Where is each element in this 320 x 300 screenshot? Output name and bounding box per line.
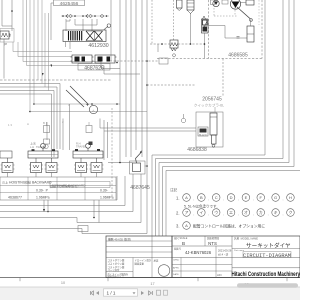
svg-text:HOISTING: HOISTING bbox=[9, 180, 26, 184]
svg-text:3.: 3. bbox=[176, 224, 180, 229]
svg-text:サーキットダイヤ: サーキットダイヤ bbox=[246, 241, 291, 249]
svg-text:エ: エ bbox=[229, 210, 233, 215]
svg-text:BLACK: BLACK bbox=[199, 134, 207, 137]
svg-text:±0.4・済: ±0.4・済 bbox=[218, 252, 229, 256]
svg-text:コストダウン図: コストダウン図 bbox=[108, 262, 125, 266]
svg-text:4J-KBN76026: 4J-KBN76026 bbox=[185, 250, 212, 255]
svg-text:Hitachi Construction Machinery: Hitachi Construction Machinery bbox=[232, 271, 301, 278]
svg-text:1 / 1: 1 / 1 bbox=[107, 291, 116, 296]
svg-text:B: B bbox=[43, 121, 45, 125]
svg-text:G: G bbox=[274, 195, 277, 200]
svg-text:ドローイン設計: ドローイン設計 bbox=[135, 258, 152, 262]
svg-text:注記: 注記 bbox=[170, 187, 178, 192]
svg-text:縮尺 SCALE: 縮尺 SCALE bbox=[174, 236, 188, 240]
svg-text:H: H bbox=[289, 195, 292, 200]
svg-text:コストダウン図: コストダウン図 bbox=[108, 258, 125, 262]
svg-text:0.39-: 0.39- bbox=[100, 189, 108, 193]
svg-text:4612930: 4612930 bbox=[88, 43, 108, 49]
svg-text:,: , bbox=[253, 212, 254, 216]
svg-text:2056745: 2056745 bbox=[202, 97, 222, 103]
svg-text:,: , bbox=[238, 197, 239, 201]
svg-text:微動: 微動 bbox=[25, 179, 31, 184]
svg-text:B: B bbox=[200, 195, 203, 200]
svg-text:,: , bbox=[238, 212, 239, 216]
svg-text:4686838: 4686838 bbox=[187, 147, 207, 153]
svg-text:,: , bbox=[208, 197, 209, 201]
svg-text:ウ: ウ bbox=[214, 209, 218, 215]
svg-text:HIN: HIN bbox=[217, 273, 222, 277]
svg-text:承認: 承認 bbox=[154, 259, 159, 263]
svg-text:キ: キ bbox=[274, 210, 278, 215]
svg-text:APPD: APPD bbox=[173, 266, 179, 269]
svg-text:名称 MODEL NAME: 名称 MODEL NAME bbox=[234, 236, 258, 240]
svg-text:D: D bbox=[230, 195, 233, 200]
svg-text:図面号: 図面号 bbox=[174, 247, 182, 251]
svg-text:図面変更: 図面変更 bbox=[135, 262, 145, 266]
svg-text:カ: カ bbox=[259, 210, 263, 215]
svg-text:,: , bbox=[283, 197, 284, 201]
svg-text:4638677: 4638677 bbox=[8, 195, 22, 199]
svg-text:A: A bbox=[27, 122, 29, 126]
svg-text:1.96MPa: 1.96MPa bbox=[100, 195, 114, 199]
svg-text:4625456: 4625456 bbox=[60, 1, 79, 7]
svg-text:0.39- P: 0.39- P bbox=[36, 189, 49, 193]
svg-text:爪上: 爪上 bbox=[2, 179, 8, 184]
svg-text:2021-05-26: 2021-05-26 bbox=[218, 249, 232, 253]
svg-text:クイックカプラ-6L: クイックカプラ-6L bbox=[194, 102, 224, 107]
svg-text:DATE: DATE bbox=[173, 273, 179, 276]
svg-text:図面相関図: 図面相関図 bbox=[207, 236, 220, 240]
svg-text:ア: ア bbox=[185, 210, 189, 215]
svg-text:CHKD: CHKD bbox=[173, 259, 180, 261]
svg-text:,: , bbox=[268, 197, 269, 201]
svg-text:1 3: 1 3 bbox=[8, 123, 12, 127]
svg-text:10: 10 bbox=[61, 281, 65, 285]
svg-text:B: B bbox=[182, 241, 185, 246]
svg-text:配管コントロール回路は、オプション用に: 配管コントロール回路は、オプション用に bbox=[193, 224, 265, 229]
svg-text:A: A bbox=[185, 223, 188, 228]
svg-text:パーツ添付: パーツ添付 bbox=[108, 268, 121, 272]
svg-text:,: , bbox=[283, 212, 284, 216]
svg-text:A: A bbox=[185, 195, 188, 200]
svg-text:オ: オ bbox=[244, 210, 248, 215]
svg-text:FORWARD BACKWARD: FORWARD BACKWARD bbox=[52, 183, 86, 187]
svg-text:C: C bbox=[215, 195, 218, 200]
svg-text:上水: 上水 bbox=[30, 141, 36, 146]
svg-text:,: , bbox=[268, 212, 269, 216]
svg-text:5. 5L-Nは色塗りです.: 5. 5L-Nは色塗りです. bbox=[184, 203, 217, 208]
svg-text:1.96MPa: 1.96MPa bbox=[36, 195, 50, 199]
svg-text:NTS: NTS bbox=[208, 241, 217, 246]
svg-text:,: , bbox=[223, 197, 224, 201]
svg-text:BACKWARD: BACKWARD bbox=[32, 180, 52, 184]
svg-text:L.H: L.H bbox=[30, 145, 34, 149]
svg-text:機略 49.635 深[澤]: 機略 49.635 深[澤] bbox=[108, 237, 131, 241]
svg-text:TRAVEL: TRAVEL bbox=[76, 145, 86, 149]
svg-text:ク: ク bbox=[288, 209, 292, 215]
svg-text:,: , bbox=[193, 197, 194, 201]
svg-text:17: 17 bbox=[150, 282, 154, 286]
svg-text:1.: 1. bbox=[176, 196, 180, 201]
svg-text:4686585: 4686585 bbox=[228, 53, 248, 59]
svg-text:CIRCUIT-DIAGRAM: CIRCUIT-DIAGRAM bbox=[243, 253, 291, 259]
svg-text:,: , bbox=[208, 212, 209, 216]
svg-text:2.: 2. bbox=[176, 211, 180, 216]
svg-text:,: , bbox=[223, 212, 224, 216]
svg-text:,: , bbox=[193, 212, 194, 216]
svg-text:イ: イ bbox=[199, 210, 203, 215]
svg-text:,: , bbox=[253, 197, 254, 201]
svg-text:E: E bbox=[245, 195, 248, 200]
